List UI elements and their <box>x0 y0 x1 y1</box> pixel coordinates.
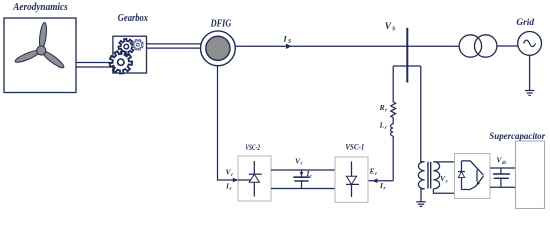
svg-text:Grid: Grid <box>516 17 535 28</box>
svg-text:Aerodynamics: Aerodynamics <box>12 1 67 13</box>
svg-text:VSC-1: VSC-1 <box>345 143 364 152</box>
svg-text:Gearbox: Gearbox <box>118 12 149 24</box>
svg-text:DFIG: DFIG <box>210 19 232 30</box>
svg-text:VSC-2: VSC-2 <box>245 143 260 152</box>
